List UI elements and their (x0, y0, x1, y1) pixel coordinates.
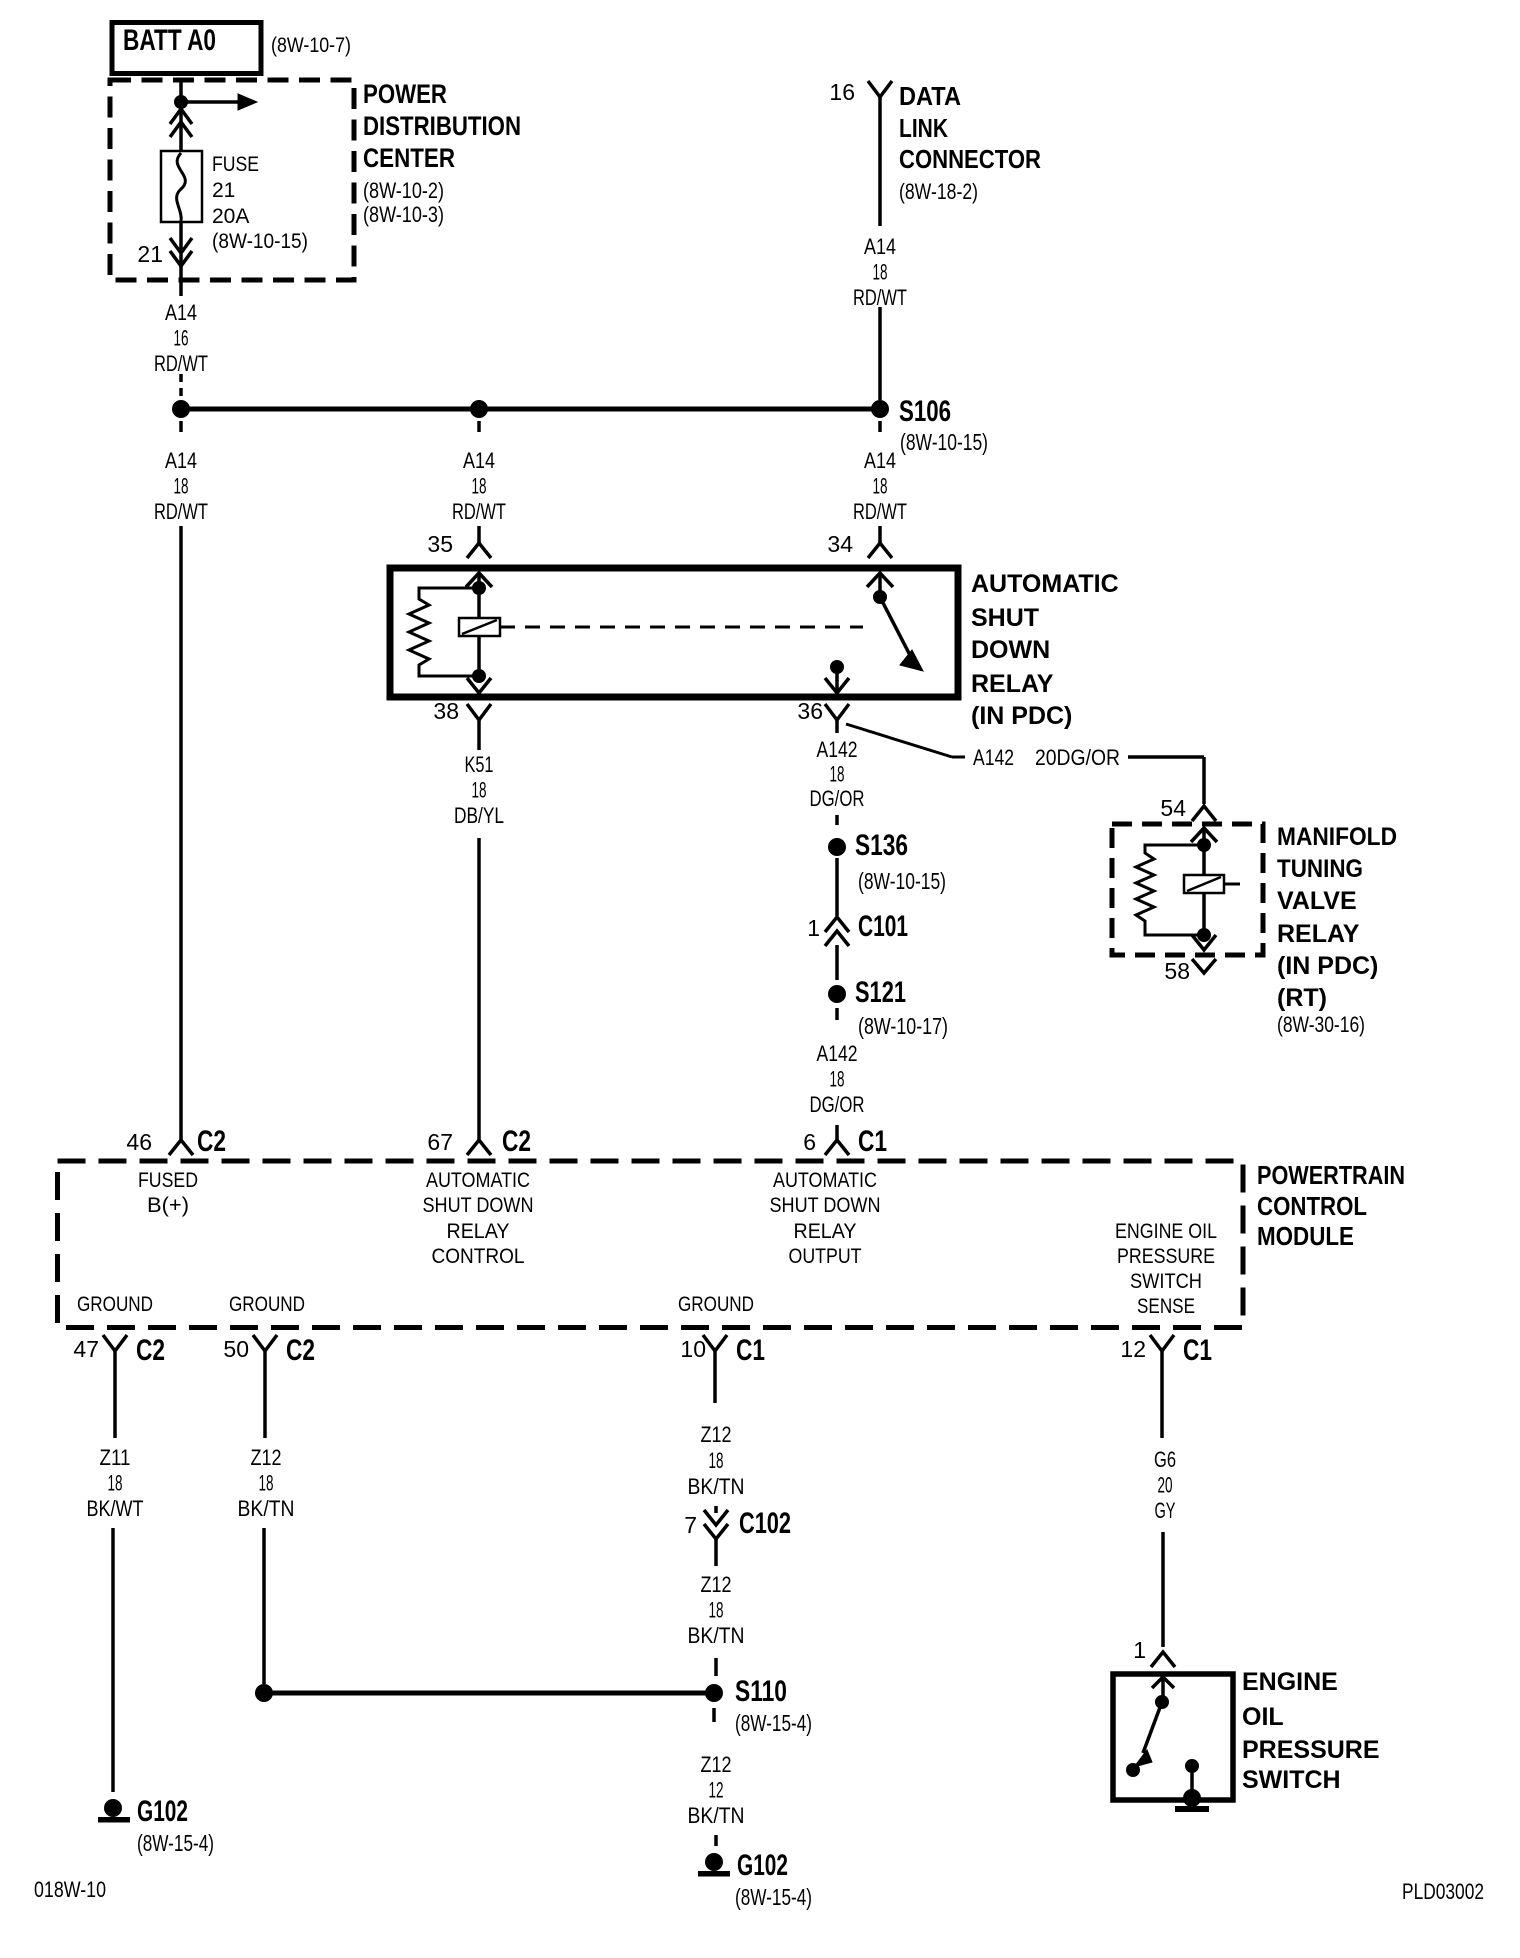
svg-text:12: 12 (1120, 1336, 1146, 1362)
svg-text:CENTER: CENTER (363, 143, 455, 173)
svg-text:SENSE: SENSE (1137, 1295, 1195, 1318)
svg-text:S110: S110 (735, 1675, 787, 1708)
svg-text:K51: K51 (465, 752, 494, 777)
svg-text:18: 18 (472, 778, 487, 803)
svg-text:1: 1 (1133, 1637, 1146, 1663)
svg-text:50: 50 (223, 1336, 249, 1362)
svg-text:DATA: DATA (899, 81, 961, 111)
svg-text:DG/OR: DG/OR (810, 1092, 865, 1117)
svg-text:SHUT DOWN: SHUT DOWN (770, 1194, 881, 1217)
svg-text:DOWN: DOWN (971, 636, 1050, 664)
svg-text:Z12: Z12 (701, 1572, 732, 1597)
svg-text:FUSE: FUSE (212, 153, 259, 176)
svg-text:G102: G102 (137, 1795, 188, 1828)
svg-text:(8W-10-7): (8W-10-7) (271, 34, 351, 57)
svg-text:7: 7 (684, 1512, 697, 1538)
svg-text:RELAY: RELAY (794, 1220, 857, 1243)
svg-text:C2: C2 (286, 1334, 315, 1367)
svg-text:MODULE: MODULE (1257, 1221, 1354, 1251)
svg-text:(8W-15-4): (8W-15-4) (137, 1830, 214, 1856)
svg-text:Z11: Z11 (100, 1445, 131, 1470)
svg-text:18: 18 (108, 1471, 123, 1496)
svg-text:18: 18 (830, 762, 845, 787)
svg-text:PLD03002: PLD03002 (1402, 1879, 1484, 1904)
svg-text:RD/WT: RD/WT (452, 499, 506, 524)
svg-text:Z12: Z12 (701, 1752, 732, 1777)
svg-text:C102: C102 (739, 1507, 791, 1540)
svg-text:S121: S121 (855, 976, 906, 1009)
svg-text:A14: A14 (864, 234, 896, 259)
svg-text:GROUND: GROUND (229, 1293, 305, 1316)
svg-text:C1: C1 (858, 1125, 887, 1158)
svg-text:GROUND: GROUND (678, 1293, 754, 1316)
svg-text:(IN PDC): (IN PDC) (1277, 952, 1378, 980)
svg-text:G102: G102 (737, 1849, 788, 1882)
svg-text:36: 36 (797, 698, 823, 724)
svg-text:1: 1 (807, 915, 820, 941)
svg-text:RD/WT: RD/WT (853, 285, 907, 310)
svg-text:BK/TN: BK/TN (688, 1474, 745, 1499)
svg-text:10: 10 (680, 1336, 706, 1362)
svg-text:67: 67 (427, 1129, 453, 1155)
svg-text:18: 18 (472, 474, 487, 499)
svg-text:ENGINE OIL: ENGINE OIL (1115, 1220, 1217, 1243)
svg-text:RELAY: RELAY (447, 1220, 510, 1243)
svg-text:(8W-10-15): (8W-10-15) (212, 230, 308, 253)
svg-text:PRESSURE: PRESSURE (1117, 1245, 1215, 1268)
svg-text:(8W-10-15): (8W-10-15) (858, 868, 946, 894)
svg-text:A14: A14 (165, 448, 197, 473)
svg-text:C101: C101 (858, 910, 908, 943)
svg-text:47: 47 (73, 1336, 99, 1362)
svg-text:BATT A0: BATT A0 (123, 24, 216, 57)
svg-text:18: 18 (873, 474, 888, 499)
svg-text:OIL: OIL (1242, 1703, 1284, 1731)
svg-text:BK/TN: BK/TN (688, 1623, 745, 1648)
svg-text:46: 46 (126, 1129, 152, 1155)
svg-text:ENGINE: ENGINE (1242, 1668, 1338, 1696)
svg-text:C2: C2 (136, 1334, 165, 1367)
svg-text:(8W-15-4): (8W-15-4) (735, 1884, 812, 1910)
svg-text:GY: GY (1155, 1498, 1176, 1523)
svg-text:SWITCH: SWITCH (1130, 1270, 1202, 1293)
svg-text:A142: A142 (817, 1041, 858, 1066)
svg-text:POWER: POWER (363, 79, 447, 109)
svg-text:18: 18 (174, 474, 189, 499)
svg-text:AUTOMATIC: AUTOMATIC (971, 570, 1119, 598)
svg-text:SHUT: SHUT (971, 604, 1039, 632)
svg-text:18: 18 (873, 260, 888, 285)
svg-text:12: 12 (709, 1778, 724, 1803)
svg-text:18: 18 (259, 1471, 274, 1496)
svg-text:018W-10: 018W-10 (34, 1877, 106, 1902)
svg-text:BK/TN: BK/TN (238, 1496, 295, 1521)
svg-text:DISTRIBUTION: DISTRIBUTION (363, 111, 521, 141)
svg-text:(8W-10-3): (8W-10-3) (363, 202, 444, 227)
svg-text:PRESSURE: PRESSURE (1242, 1736, 1380, 1764)
svg-text:C1: C1 (736, 1334, 765, 1367)
svg-text:A14: A14 (165, 300, 197, 325)
svg-text:MANIFOLD: MANIFOLD (1277, 823, 1397, 851)
svg-text:18: 18 (830, 1067, 845, 1092)
svg-text:A14: A14 (864, 448, 896, 473)
svg-text:BK/WT: BK/WT (87, 1496, 144, 1521)
svg-text:TUNING: TUNING (1277, 855, 1363, 883)
svg-text:(RT): (RT) (1277, 984, 1327, 1012)
svg-text:Z12: Z12 (251, 1445, 282, 1470)
svg-text:RELAY: RELAY (971, 670, 1054, 698)
svg-text:C2: C2 (502, 1125, 531, 1158)
svg-text:C2: C2 (197, 1125, 226, 1158)
svg-text:LINK: LINK (899, 113, 948, 143)
svg-text:(8W-10-17): (8W-10-17) (858, 1013, 948, 1039)
svg-text:35: 35 (427, 531, 453, 557)
svg-text:38: 38 (433, 698, 459, 724)
svg-text:B(+): B(+) (147, 1194, 189, 1217)
svg-text:20A: 20A (212, 205, 249, 228)
svg-text:AUTOMATIC: AUTOMATIC (773, 1169, 877, 1192)
svg-text:VALVE: VALVE (1277, 887, 1357, 915)
svg-text:DB/YL: DB/YL (454, 803, 504, 828)
svg-text:34: 34 (827, 531, 853, 557)
svg-text:POWERTRAIN: POWERTRAIN (1257, 1160, 1405, 1190)
svg-text:A142: A142 (817, 737, 858, 762)
svg-text:S106: S106 (899, 395, 951, 428)
svg-text:A14: A14 (463, 448, 495, 473)
svg-text:CONNECTOR: CONNECTOR (899, 144, 1041, 174)
svg-text:6: 6 (803, 1129, 816, 1155)
svg-text:RD/WT: RD/WT (154, 351, 208, 376)
svg-text:CONTROL: CONTROL (1257, 1191, 1367, 1221)
svg-text:(IN PDC): (IN PDC) (971, 702, 1072, 730)
svg-text:RD/WT: RD/WT (154, 499, 208, 524)
svg-text:BK/TN: BK/TN (688, 1803, 745, 1828)
svg-text:OUTPUT: OUTPUT (789, 1245, 862, 1268)
svg-text:58: 58 (1164, 958, 1190, 984)
svg-text:16: 16 (829, 79, 855, 105)
svg-text:AUTOMATIC: AUTOMATIC (426, 1169, 530, 1192)
svg-text:21: 21 (212, 179, 235, 202)
svg-text:C1: C1 (1183, 1334, 1212, 1367)
svg-text:CONTROL: CONTROL (432, 1245, 525, 1268)
svg-text:S136: S136 (855, 829, 908, 862)
svg-text:FUSED: FUSED (138, 1169, 198, 1192)
svg-text:(8W-10-15): (8W-10-15) (900, 429, 988, 455)
svg-text:G6: G6 (1154, 1447, 1176, 1472)
svg-text:54: 54 (1160, 795, 1186, 821)
svg-text:SWITCH: SWITCH (1242, 1766, 1341, 1794)
svg-text:18: 18 (709, 1448, 724, 1473)
svg-text:Z12: Z12 (701, 1422, 732, 1447)
svg-text:16: 16 (174, 326, 189, 351)
svg-text:SHUT DOWN: SHUT DOWN (423, 1194, 534, 1217)
svg-text:(8W-30-16): (8W-30-16) (1277, 1012, 1365, 1037)
svg-text:20DG/OR: 20DG/OR (1035, 745, 1120, 770)
svg-text:(8W-18-2): (8W-18-2) (899, 179, 978, 204)
svg-text:GROUND: GROUND (77, 1293, 153, 1316)
svg-text:RELAY: RELAY (1277, 920, 1360, 948)
svg-text:DG/OR: DG/OR (810, 786, 865, 811)
svg-text:RD/WT: RD/WT (853, 499, 907, 524)
svg-text:21: 21 (137, 241, 163, 267)
svg-text:20: 20 (1158, 1473, 1173, 1498)
svg-text:18: 18 (709, 1598, 724, 1623)
svg-text:(8W-10-2): (8W-10-2) (363, 178, 444, 203)
svg-text:(8W-15-4): (8W-15-4) (735, 1710, 812, 1736)
svg-text:A142: A142 (973, 745, 1014, 770)
